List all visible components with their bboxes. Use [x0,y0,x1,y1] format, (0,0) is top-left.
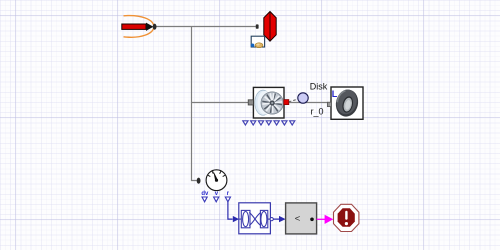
svg-text:v: v [215,191,219,197]
rim right flange connector (red) [284,100,289,105]
flange connector of torque source [153,24,157,30]
svg-text:<: < [295,214,301,225]
limiter output port [270,218,273,221]
wheel joint (red prism) [264,12,276,42]
less comparison block [286,203,317,234]
blue signal wire r to limiter [228,202,233,219]
flange connector at wheel joint [256,24,259,28]
svg-text:r_0: r_0 [311,107,324,117]
limiter block (cylinders with crossing) [239,203,271,234]
wire branch to wheel rim [191,102,249,104]
wire vertical trunk to speed sensor [192,27,197,181]
support triangles row [243,121,295,125]
wire rim to tire [289,102,328,104]
svg-text:L: L [332,89,338,99]
node Disk (circle) [298,93,308,103]
torque source tau [122,16,154,38]
tire left flange connector [327,102,331,106]
svg-text:r: r [227,191,230,197]
svg-text:dv: dv [201,191,209,197]
signal triangles under sensor [202,197,231,202]
input arrow into limiter [233,216,239,222]
visualizer icon [251,36,265,47]
input arrow into less block [279,216,286,222]
speed sensor gauge [206,170,227,191]
magenta signal wire [317,218,326,220]
blue signal wire limiter to less [273,218,279,220]
magenta arrow [325,215,334,224]
rim component box [253,87,284,118]
speed sensor flange connector [197,178,201,184]
wire torque to inertia flange [156,26,256,28]
terminate / stop block [334,204,359,231]
dashed link to Disk node [289,99,299,102]
svg-text:Disk: Disk [310,82,328,92]
tire component box [331,87,363,119]
rim left flange connector [248,100,253,105]
